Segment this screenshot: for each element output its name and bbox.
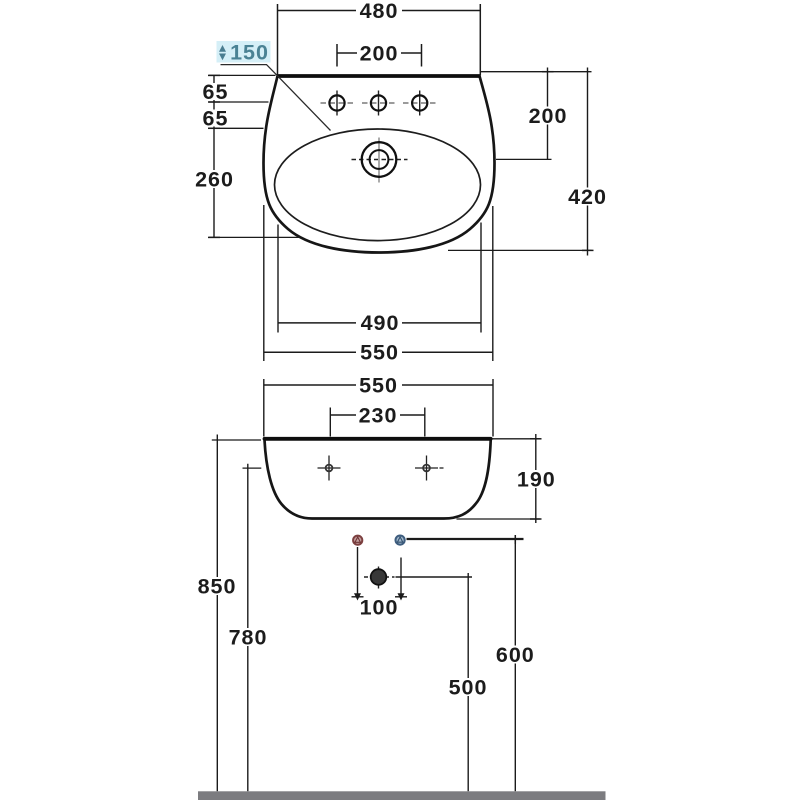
dim 230 (fixing holes spacing)	[330, 403, 425, 436]
dim 550 (front overall)	[264, 373, 493, 436]
leader line from 150 label into bowl	[221, 65, 331, 131]
dim 480	[278, 0, 481, 75]
up-down arrow glyph	[219, 45, 226, 52]
svg-text:65: 65	[203, 106, 229, 130]
extension rows	[209, 74, 276, 76]
label 150 (depth, highlighted)	[217, 41, 271, 65]
right dim 200 (top edge to drain)	[480, 68, 591, 160]
front view top edge (thick)	[265, 437, 491, 441]
dim 190 (front depth)	[457, 434, 559, 523]
drain pipe (front view, filled)	[364, 567, 395, 589]
dim 550 (top view overall)	[264, 205, 493, 365]
svg-text:230: 230	[359, 403, 398, 427]
svg-text:780: 780	[229, 625, 268, 649]
basin top edge (thick)	[277, 74, 481, 78]
dim 100 (drain offset)	[352, 547, 408, 619]
dim 600	[493, 535, 538, 791]
svg-text:420: 420	[568, 185, 607, 209]
inner bowl ellipse	[275, 129, 481, 241]
svg-text:65: 65	[203, 80, 229, 104]
floor	[198, 791, 606, 800]
fixing hole right	[415, 456, 444, 481]
front view body outline	[265, 440, 491, 519]
65 #1	[201, 83, 229, 100]
svg-text:490: 490	[361, 311, 400, 335]
line from cold symbol to 600 dim	[407, 538, 524, 540]
svg-text:600: 600	[496, 643, 535, 667]
right dim 420 (overall depth)	[448, 68, 610, 256]
dim 200 top (faucet spacing)	[337, 41, 422, 66]
svg-text:260: 260	[195, 167, 234, 191]
hot water symbol (red)	[353, 536, 362, 545]
faucet hole left	[321, 91, 354, 116]
faucet hole right	[403, 91, 437, 116]
svg-text:500: 500	[449, 676, 488, 700]
svg-text:550: 550	[360, 341, 399, 365]
dim 780 (fixing holes height)	[226, 464, 271, 792]
svg-text:200: 200	[360, 41, 399, 65]
svg-text:850: 850	[198, 574, 237, 598]
svg-text:190: 190	[517, 467, 556, 491]
65 #2	[201, 110, 229, 127]
dim 500	[446, 573, 491, 791]
faucet hole middle	[362, 91, 395, 116]
dim 490	[278, 223, 481, 336]
fixing hole left	[318, 456, 341, 481]
cold water symbol (blue)	[396, 536, 405, 545]
left dims 65/65/260 vertical line	[193, 75, 299, 237]
260	[193, 170, 236, 188]
ticks	[208, 74, 220, 76]
svg-text:480: 480	[360, 0, 399, 23]
dim 850 (rim height)	[195, 435, 262, 792]
basin outline (top view body)	[264, 76, 495, 253]
drain (top view)	[352, 138, 408, 183]
svg-text:150: 150	[230, 41, 269, 65]
svg-text:100: 100	[360, 595, 399, 619]
svg-text:200: 200	[529, 104, 568, 128]
extension from drain to 500 dim	[396, 576, 473, 578]
svg-text:550: 550	[359, 373, 398, 397]
